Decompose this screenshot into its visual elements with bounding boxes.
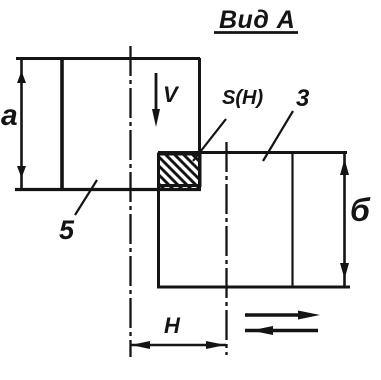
- dimension a lower arrowhead: [17, 166, 26, 178]
- dimension б upper arrowhead: [340, 159, 349, 175]
- hatched square border: [159, 154, 201, 186]
- left centre line (dash-dot): [129, 46, 131, 357]
- right part bottom edge: [157, 286, 350, 289]
- dimension H line: [131, 344, 227, 347]
- left part right edge: [198, 58, 201, 189]
- leader line S(H): [193, 119, 226, 161]
- hatched overlap square S(H): [125, 150, 249, 202]
- arrow V shaft: [155, 73, 158, 112]
- left part inner edge line: [60, 59, 64, 189]
- leader line 3: [263, 111, 293, 161]
- svg-text:5: 5: [59, 215, 75, 245]
- svg-text:H: H: [164, 313, 181, 338]
- dimension б lower arrowhead: [340, 263, 349, 279]
- motion arrow right shaft: [245, 313, 310, 317]
- dimension a upper arrowhead: [17, 71, 26, 83]
- right part right edge / dimension line б: [343, 152, 346, 288]
- dimension H right arrowhead: [206, 341, 226, 349]
- motion arrow left head: [251, 326, 273, 335]
- svg-text:3: 3: [296, 85, 310, 112]
- svg-text:V: V: [163, 82, 180, 107]
- svg-text:a: a: [1, 99, 18, 132]
- leader line 5: [75, 180, 97, 215]
- title underline: [214, 31, 298, 34]
- svg-text:б: б: [350, 192, 371, 228]
- svg-text:Вид А: Вид А: [219, 6, 295, 34]
- left part bottom edge: [15, 188, 201, 191]
- dimension H left arrowhead: [131, 341, 150, 349]
- right part left edge: [157, 153, 160, 288]
- right part top edge: [158, 151, 347, 154]
- right centre line (dash-dot): [225, 142, 227, 355]
- motion arrow left shaft: [245, 329, 318, 333]
- motion arrow right head: [298, 311, 320, 320]
- arrow V head: [152, 109, 160, 127]
- svg-text:S(H): S(H): [222, 87, 263, 109]
- right part inner edge line: [291, 153, 293, 287]
- left part left edge / dimension line a: [20, 58, 23, 190]
- left part top edge: [16, 57, 200, 60]
